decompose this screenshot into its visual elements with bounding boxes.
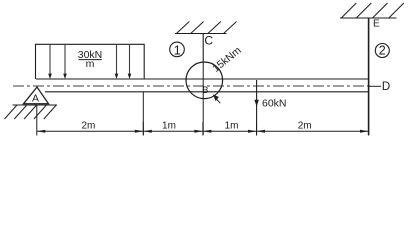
dimension arrowheads: [37, 130, 369, 133]
beam bottom chord: [45, 91, 369, 93]
load arrow 3: [115, 45, 119, 79]
load arrow 2: [63, 45, 67, 79]
leader line to D: [369, 85, 381, 87]
pin support A triangle: [24, 87, 49, 104]
beam centerline (dash-dot): [13, 85, 370, 87]
hatching at C: [176, 22, 236, 34]
fixed anchor at E: ground line: [340, 17, 397, 19]
svg-text:2: 2: [379, 43, 386, 57]
svg-text:B: B: [202, 85, 208, 95]
moment circle 15kNm at B: [186, 62, 223, 99]
hatching at E: [341, 3, 404, 18]
link member C (bar 1): [202, 34, 204, 64]
svg-text:C: C: [204, 33, 213, 47]
load arrow 4: [128, 45, 132, 79]
svg-text:1: 1: [174, 43, 181, 57]
moment arrowhead: [213, 94, 219, 101]
circled 2: [375, 44, 389, 58]
distributed load outline q=30kN/m: [36, 44, 145, 79]
circled 1: [170, 42, 185, 57]
svg-text:A: A: [32, 93, 39, 105]
link member E-D (bar 2): [368, 18, 370, 135]
ground line at A: [13, 104, 58, 106]
svg-text:2m: 2m: [298, 121, 312, 132]
dimension ticks: [37, 105, 369, 136]
moment arrow tail: [216, 99, 220, 103]
node B extension line to dimension: [202, 63, 204, 135]
extension line at load right end: [142, 92, 144, 135]
svg-text:E: E: [373, 19, 380, 30]
svg-text:D: D: [382, 81, 390, 93]
60kN arrowhead: [254, 100, 259, 107]
beam top chord: [36, 78, 369, 80]
svg-text:2m: 2m: [81, 121, 95, 132]
svg-text:1m: 1m: [162, 121, 176, 132]
svg-text:1m: 1m: [225, 121, 239, 132]
hatching at A: [5, 105, 57, 119]
svg-text:m: m: [86, 58, 95, 70]
60kN force line: [256, 80, 258, 135]
load arrow 1: [48, 45, 52, 79]
label 30kN/m: [78, 49, 103, 70]
svg-text:60kN: 60kN: [262, 98, 287, 110]
dimension line: [37, 130, 369, 132]
fixed anchor at C: ground line: [175, 33, 227, 35]
